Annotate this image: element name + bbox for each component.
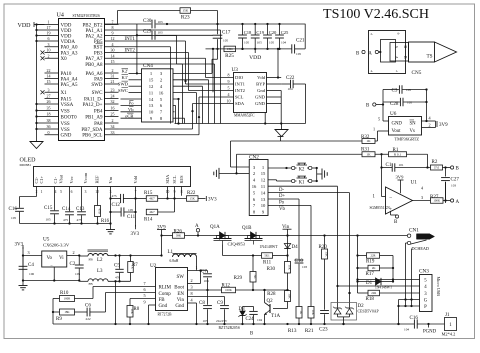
svg-text:R28: R28 — [267, 292, 276, 297]
svg-text:TS100 V2.46.SCH: TS100 V2.46.SCH — [323, 7, 429, 22]
svg-text:3: 3 — [27, 250, 29, 255]
svg-text:Vm: Vm — [108, 176, 113, 183]
svg-text:35: 35 — [47, 106, 51, 111]
svg-text:Gnd: Gnd — [257, 88, 266, 93]
svg-text:1: 1 — [373, 126, 375, 131]
svg-text:RST: RST — [93, 46, 102, 51]
svg-text:14: 14 — [261, 190, 266, 195]
svg-text:10: 10 — [227, 99, 231, 104]
svg-text:K1': K1' — [122, 75, 129, 80]
svg-text:3V9: 3V9 — [396, 175, 405, 180]
svg-text:476: 476 — [115, 275, 120, 279]
wire CN2 pin2 to R31 — [237, 172, 250, 174]
svg-text:Q1B: Q1B — [242, 226, 252, 231]
wire sda scl res — [167, 187, 169, 199]
wire R23 net — [118, 10, 181, 12]
net 3V3 oled — [135, 187, 137, 227]
ground U4 — [30, 142, 43, 149]
svg-text:103: 103 — [158, 20, 163, 24]
capacitor C22 104 — [281, 83, 290, 85]
svg-text:C19: C19 — [256, 30, 264, 35]
resistor R19 22R — [367, 253, 380, 259]
U4 pin PB3 — [105, 52, 119, 54]
svg-text:Vb: Vb — [279, 207, 285, 212]
U4 pin PA8 — [105, 122, 119, 124]
svg-text:25: 25 — [111, 112, 115, 117]
svg-text:5: 5 — [60, 190, 62, 194]
net Vb — [268, 204, 311, 206]
svg-text:TS: TS — [426, 54, 432, 60]
svg-text:Q2: Q2 — [267, 299, 274, 304]
svg-text:1K: 1K — [366, 152, 371, 156]
U4 pin SWC — [105, 91, 119, 93]
wire buttons common — [316, 168, 318, 181]
svg-text:C13: C13 — [76, 207, 85, 212]
wire K2 stub — [280, 137, 282, 142]
capacitor C19 105 — [254, 23, 256, 25]
svg-text:Gnd: Gnd — [175, 304, 184, 309]
svg-text:5: 5 — [378, 116, 380, 121]
svg-text:C24: C24 — [246, 317, 255, 322]
svg-text:Gnd: Gnd — [159, 304, 168, 309]
svg-text:VSS: VSS — [61, 128, 70, 133]
wire R1 to B — [427, 154, 429, 167]
svg-text:SGM8551XN: SGM8551XN — [370, 206, 391, 210]
svg-text:PA15: PA15 — [61, 97, 72, 102]
svg-text:18: 18 — [47, 112, 51, 117]
svg-text:19: 19 — [47, 31, 51, 36]
svg-text:PA9: PA9 — [94, 77, 103, 82]
svg-text:oCR: oCR — [125, 114, 134, 119]
svg-text:38: 38 — [47, 118, 51, 123]
svg-text:15: 15 — [149, 78, 154, 83]
wire 3V3 rail to L1 — [108, 255, 162, 257]
resistor R9 18K — [53, 311, 60, 313]
svg-text:R15: R15 — [144, 191, 153, 196]
svg-text:30: 30 — [111, 48, 115, 53]
svg-text:R8: R8 — [134, 307, 140, 312]
svg-text:FB: FB — [89, 282, 94, 286]
U4 pin PB2_BT2 — [105, 24, 119, 26]
U1 output pin 3 — [413, 200, 431, 202]
svg-text:D+: D+ — [279, 194, 285, 199]
wire U3 vdd — [277, 49, 279, 78]
svg-text:6: 6 — [143, 287, 145, 292]
svg-text:4K7: 4K7 — [149, 197, 155, 201]
resistor R17 2K — [368, 265, 380, 271]
svg-text:23: 23 — [111, 87, 115, 92]
wire cap commons — [20, 223, 111, 225]
svg-text:104: 104 — [281, 41, 286, 45]
capacitor C29 103 — [137, 34, 151, 36]
U4 pin PA3_A3 — [45, 52, 59, 54]
svg-text:PB1_A9: PB1_A9 — [85, 115, 103, 120]
connector CN5 tip socket — [369, 31, 406, 74]
svg-text:A: A — [394, 46, 398, 49]
svg-text:PB0_A8: PB0_A8 — [85, 63, 103, 68]
svg-text:5: 5 — [143, 293, 145, 298]
svg-text:22: 22 — [47, 68, 51, 73]
svg-text:10K: 10K — [288, 293, 292, 299]
svg-text:26: 26 — [47, 99, 51, 104]
U4 pin PB4 — [105, 110, 119, 112]
CN4 pin Po — [121, 104, 142, 106]
svg-text:R18: R18 — [366, 297, 375, 302]
svg-text:B: B — [250, 332, 253, 337]
U4 pin PA5_A5 — [45, 83, 59, 85]
svg-text:DIO: DIO — [235, 75, 244, 80]
svg-text:3: 3 — [48, 42, 50, 47]
svg-text:R13: R13 — [288, 328, 297, 334]
svg-text:10: 10 — [47, 48, 51, 53]
CN4 pin SWC — [129, 92, 142, 94]
U4 pin PB5 — [105, 40, 119, 42]
svg-text:SWD: SWD — [118, 82, 129, 87]
U4 pin PA11_D- — [105, 98, 119, 100]
svg-text:C28: C28 — [390, 102, 399, 107]
svg-text:2: 2 — [48, 53, 50, 58]
ground buttons — [321, 169, 323, 180]
U4 pin X0 — [45, 57, 59, 59]
svg-text:105: 105 — [128, 208, 133, 212]
svg-text:SDA: SDA — [165, 174, 170, 184]
svg-text:R17: R17 — [366, 272, 375, 277]
U4 pin PB0_A8 — [105, 63, 119, 65]
svg-text:−: − — [389, 195, 392, 201]
svg-text:FB: FB — [89, 257, 94, 261]
net Po — [268, 198, 299, 200]
U6 pin 2 — [422, 127, 436, 129]
svg-text:13: 13 — [261, 197, 266, 202]
capacitor C25 104 — [278, 23, 280, 25]
U2 pin 6 — [106, 292, 156, 294]
svg-text:C15: C15 — [44, 206, 53, 211]
U2 pin 4 — [188, 302, 197, 304]
wire ground rail bottom — [53, 323, 414, 325]
U1 pin 1 — [382, 196, 386, 198]
svg-text:STM32F103TBU6: STM32F103TBU6 — [73, 14, 101, 18]
wire rail mid — [206, 48, 292, 50]
svg-text:47B: 47B — [98, 208, 102, 213]
svg-text:105: 105 — [244, 41, 249, 45]
resistor R8 — [129, 299, 131, 306]
node B shunt — [443, 167, 451, 169]
net VDD stub — [254, 49, 256, 53]
svg-text:C22: C22 — [286, 76, 295, 81]
svg-text:PB7_SDA: PB7_SDA — [81, 128, 103, 133]
svg-text:3V9: 3V9 — [439, 123, 448, 128]
svg-text:105: 105 — [75, 272, 80, 276]
svg-text:15: 15 — [111, 59, 115, 64]
svg-text:BYP: BYP — [256, 82, 265, 87]
capacitor C23 — [324, 259, 326, 310]
svg-text:2: 2 — [190, 278, 192, 283]
mcu U4 STM32F103TBU6 — [59, 19, 105, 141]
svg-text:104: 104 — [404, 328, 409, 332]
svg-text:105: 105 — [296, 52, 301, 56]
svg-text:11: 11 — [261, 184, 266, 189]
U4 pin PA10 — [45, 72, 59, 74]
CN4 pin K1' — [129, 79, 142, 81]
U4 pin VSS — [45, 122, 59, 124]
wire sensor left — [382, 90, 384, 122]
svg-text:R9: R9 — [56, 317, 62, 322]
node A power — [196, 229, 199, 232]
svg-text:Vbat: Vbat — [58, 174, 63, 183]
net PGND — [428, 324, 430, 328]
net D- — [268, 185, 338, 187]
svg-text:180R: 180R — [64, 297, 71, 301]
net 3V9 sensor — [435, 121, 437, 128]
svg-text:C12: C12 — [112, 203, 121, 208]
svg-text:104: 104 — [257, 318, 262, 322]
svg-text:2: 2 — [428, 123, 430, 128]
svg-text:C2: C2 — [70, 262, 76, 267]
svg-text:PB4: PB4 — [94, 109, 103, 114]
svg-text:T1A: T1A — [271, 314, 281, 319]
U5 pin 3 — [23, 255, 42, 257]
node A out — [443, 200, 451, 202]
ground U5 — [22, 281, 24, 286]
svg-text:34: 34 — [111, 124, 115, 129]
wire R10 R9 left — [52, 299, 54, 325]
U4 pin BOOT0 — [45, 116, 59, 118]
U4 pin PB6_SCL — [105, 134, 119, 136]
svg-text:G: G — [424, 298, 428, 303]
svg-text:15K: 15K — [190, 197, 196, 201]
svg-text:A: A — [195, 224, 199, 229]
inductor L2 — [88, 249, 109, 251]
svg-text:PA5_A5: PA5_A5 — [61, 83, 79, 88]
svg-text:10: 10 — [149, 110, 154, 115]
svg-text:L1: L1 — [168, 250, 174, 255]
svg-text:18K: 18K — [64, 310, 70, 314]
svg-text:15: 15 — [261, 171, 266, 176]
svg-text:1K: 1K — [366, 139, 371, 143]
svg-text:VDDA: VDDA — [61, 40, 76, 45]
svg-text:C11: C11 — [127, 215, 136, 220]
svg-text:104: 104 — [288, 87, 293, 91]
svg-text:6: 6 — [71, 190, 73, 194]
svg-text:D4: D4 — [292, 245, 299, 250]
svg-text:222: 222 — [86, 317, 91, 321]
net D+ — [268, 192, 350, 194]
U2 pin 8 — [188, 296, 225, 298]
svg-text:Vdd: Vdd — [257, 75, 266, 80]
svg-text:14: 14 — [47, 74, 51, 79]
resistor R23 15K — [180, 8, 191, 14]
svg-text:12: 12 — [261, 178, 266, 183]
wire divider right — [392, 256, 394, 282]
svg-text:R29: R29 — [234, 276, 243, 281]
svg-text:SWC: SWC — [92, 91, 104, 96]
svg-text:12: 12 — [111, 36, 115, 41]
svg-text:16: 16 — [252, 184, 257, 189]
svg-text:VSS: VSS — [61, 122, 70, 127]
wire rail VDD top — [218, 23, 306, 25]
svg-text:14: 14 — [111, 53, 115, 58]
svg-text:32: 32 — [111, 99, 115, 104]
svg-text:RES: RES — [179, 175, 184, 184]
svg-text:36: 36 — [47, 124, 51, 129]
resistor R21 10K — [310, 205, 312, 306]
no-connect crosses — [41, 51, 45, 55]
wire U5 bottom — [23, 280, 79, 282]
svg-text:A: A — [456, 200, 460, 205]
svg-text:10K: 10K — [288, 265, 292, 271]
wire CN2 pin3 to R32 — [231, 166, 250, 168]
svg-text:8: 8 — [228, 73, 230, 78]
svg-text:R25: R25 — [225, 53, 234, 59]
svg-text:3: 3 — [48, 87, 50, 92]
wire CN1 to divider — [356, 234, 358, 236]
svg-text:1K: 1K — [299, 310, 303, 315]
svg-text:REF: REF — [94, 175, 99, 184]
svg-text:3: 3 — [190, 285, 192, 290]
svg-text:PA7_A7: PA7_A7 — [85, 57, 103, 62]
svg-text:PA12_D+: PA12_D+ — [83, 103, 103, 108]
resistor R16 — [95, 206, 101, 217]
svg-text:1-: 1- — [396, 69, 399, 73]
svg-text:GND: GND — [61, 134, 72, 139]
svg-text:10K: 10K — [311, 310, 315, 316]
soldering tip TS — [409, 42, 435, 62]
svg-text:A: A — [394, 56, 398, 59]
svg-text:37.0: 37.0 — [434, 166, 440, 170]
U4 pin VSS — [45, 128, 59, 130]
svg-text:475: 475 — [112, 194, 117, 198]
resistor R14 4K7 — [146, 209, 157, 215]
svg-text:10: 10 — [261, 203, 266, 208]
U4 pin VDD — [45, 24, 59, 26]
svg-text:FB: FB — [159, 298, 166, 303]
svg-text:4K7: 4K7 — [149, 210, 155, 214]
svg-text:C6: C6 — [85, 304, 91, 309]
svg-text:C4: C4 — [28, 263, 34, 268]
svg-text:7: 7 — [143, 281, 145, 286]
svg-text:3V3: 3V3 — [131, 232, 140, 237]
svg-text:CN3: CN3 — [419, 269, 429, 275]
svg-text:1: 1 — [41, 190, 43, 194]
U6 pin 1 — [378, 130, 389, 132]
svg-text:U1: U1 — [411, 180, 418, 186]
svg-text:Vdd: Vdd — [133, 175, 138, 183]
svg-text:CX6206-3.3V: CX6206-3.3V — [43, 243, 70, 248]
svg-text:CN5: CN5 — [412, 70, 422, 76]
svg-text:475: 475 — [77, 218, 82, 222]
svg-text:105: 105 — [269, 41, 274, 45]
svg-text:PB3: PB3 — [94, 51, 103, 56]
capacitor C24 104 — [253, 307, 255, 311]
svg-text:R21: R21 — [305, 328, 314, 334]
U2 pin 9 — [149, 304, 156, 306]
svg-text:R22: R22 — [187, 191, 196, 196]
svg-text:12: 12 — [149, 84, 154, 89]
svg-text:C1+: C1+ — [39, 175, 44, 183]
svg-text:SN: SN — [410, 122, 417, 127]
resistor R25 15K — [224, 46, 236, 52]
svg-text:15K: 15K — [182, 9, 188, 13]
button K1 — [268, 179, 277, 181]
U6 pin 4 — [422, 120, 436, 122]
svg-text:6: 6 — [48, 36, 50, 41]
svg-text:1N4148WT: 1N4148WT — [260, 245, 279, 249]
svg-text:39K: 39K — [176, 234, 182, 238]
svg-text:PA10: PA10 — [61, 72, 72, 77]
svg-text:17: 17 — [47, 25, 51, 30]
wire U3 gnd — [280, 91, 282, 124]
svg-text:R14: R14 — [144, 217, 153, 222]
U2 pin 7 — [93, 286, 156, 288]
U5 pin 2 — [67, 255, 80, 257]
svg-text:9: 9 — [112, 31, 114, 36]
svg-text:105: 105 — [46, 218, 51, 222]
svg-text:2: 2 — [112, 68, 114, 73]
resistor R18 22R — [368, 290, 380, 296]
svg-text:PA1_A1: PA1_A1 — [85, 29, 103, 34]
svg-text:11: 11 — [149, 90, 154, 95]
svg-text:C21: C21 — [296, 39, 305, 44]
U4 pin PA0_A0 — [45, 46, 59, 48]
svg-text:GND: GND — [255, 101, 266, 106]
svg-text:C17: C17 — [222, 31, 231, 36]
U1 pin +B — [390, 211, 392, 215]
svg-text:16: 16 — [111, 106, 115, 111]
svg-text:8: 8 — [112, 25, 114, 30]
svg-text:VSSA: VSSA — [61, 103, 74, 108]
svg-text:9: 9 — [143, 300, 145, 305]
svg-text:VDD: VDD — [249, 55, 261, 61]
svg-text:EN: EN — [177, 292, 184, 297]
svg-text:K2: K2 — [299, 168, 305, 173]
U4 pin VDDA — [45, 40, 59, 42]
wire cn3 rows — [392, 279, 394, 281]
U4 pin VDD — [45, 29, 59, 31]
svg-text:X0: X0 — [61, 57, 68, 62]
U4 pin PA2_A2 — [105, 35, 119, 37]
svg-text:31: 31 — [111, 74, 115, 79]
svg-text:105: 105 — [223, 39, 228, 43]
U2 pin 1 SW — [188, 270, 208, 272]
svg-text:PA8: PA8 — [94, 122, 103, 127]
svg-text:3K: 3K — [253, 275, 257, 280]
wire VDD bus — [36, 25, 38, 142]
svg-text:K1: K1 — [299, 181, 305, 186]
svg-text:Vb: Vb — [128, 107, 134, 112]
svg-text:K2': K2' — [122, 69, 129, 74]
U2 pin 2 — [188, 283, 201, 285]
svg-text:DCHEAD: DCHEAD — [412, 246, 429, 251]
svg-text:2: 2 — [72, 250, 74, 255]
ground CN2 pin2 — [219, 172, 237, 174]
svg-text:3: 3 — [421, 195, 423, 200]
svg-text:INT2: INT2 — [235, 88, 246, 93]
svg-text:CN1: CN1 — [409, 228, 419, 234]
wire D- vert — [337, 186, 339, 307]
svg-text:SDA: SDA — [235, 101, 245, 106]
svg-text:PGND: PGND — [423, 330, 437, 335]
svg-text:P: P — [424, 305, 427, 310]
button K2 — [268, 167, 292, 169]
svg-text:SCL: SCL — [235, 95, 244, 100]
svg-text:C20: C20 — [269, 30, 277, 35]
wire rail right drop — [304, 24, 306, 49]
svg-text:VDD: VDD — [18, 23, 32, 29]
svg-text:14: 14 — [149, 97, 154, 102]
svg-text:PB6_SCL: PB6_SCL — [82, 134, 102, 139]
svg-text:16: 16 — [159, 90, 164, 95]
svg-text:SWD: SWD — [91, 83, 103, 88]
